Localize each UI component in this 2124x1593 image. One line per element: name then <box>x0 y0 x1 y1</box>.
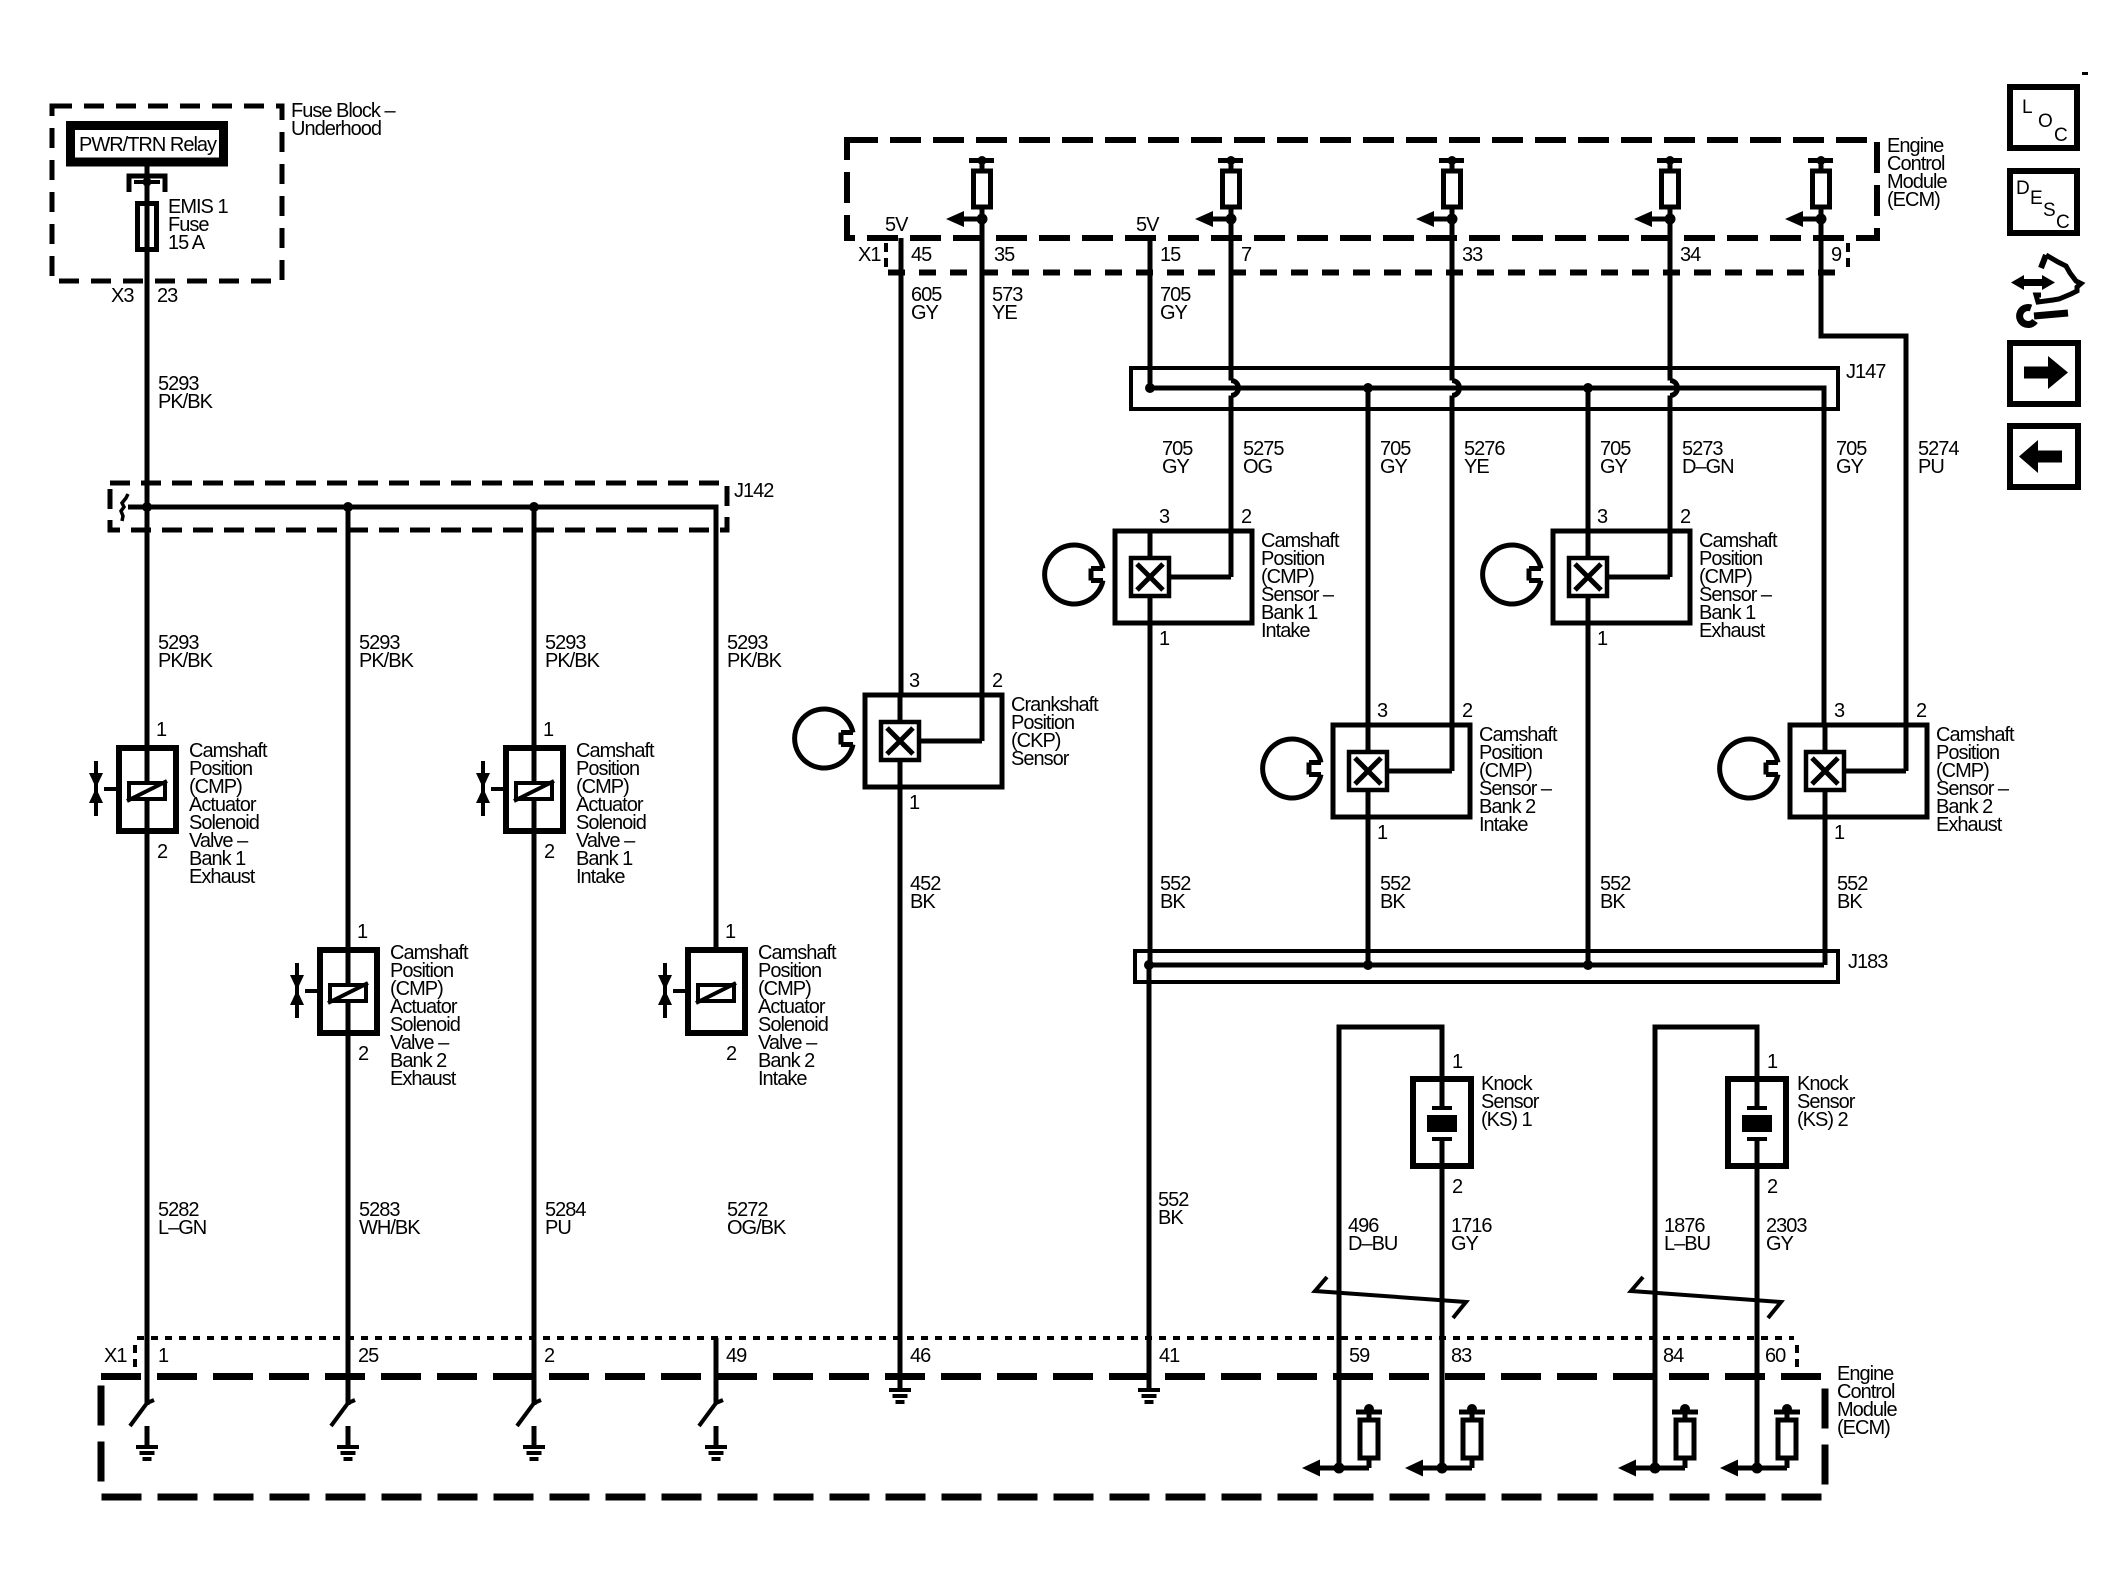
svg-text:YE: YE <box>992 302 1017 324</box>
svg-text:2: 2 <box>1452 1176 1463 1198</box>
svg-text:GY: GY <box>1766 1233 1794 1255</box>
junction on J183 bus B2 intake <box>1363 960 1373 970</box>
svg-text:Intake: Intake <box>1261 620 1310 642</box>
svg-text:PK/BK: PK/BK <box>158 650 214 672</box>
svg-text:3: 3 <box>1159 506 1170 528</box>
connector X3 pin 23 <box>111 285 178 307</box>
splice pack J147 box <box>1131 368 1838 409</box>
ECM knock input network pin 59 <box>1302 1338 1382 1477</box>
svg-text:OG: OG <box>1243 456 1273 478</box>
svg-text:Intake: Intake <box>576 866 625 888</box>
wire label 1876 L-BU <box>1664 1215 1710 1255</box>
wire label 705 GY (B2 exhaust) <box>1836 438 1867 478</box>
wire 5276 YE hop over J147 bus <box>1452 381 1460 396</box>
ECM internal resistor + signal arrow pin 9 <box>1785 156 1833 227</box>
ECM internal resistor + signal arrow pin 35 <box>946 156 994 227</box>
svg-text:84: 84 <box>1663 1345 1684 1367</box>
wire 5276 YE lower segment to CMP B2 intake pin 2 <box>1450 396 1455 726</box>
wire 5293 PK/BK to valve B1 exhaust <box>145 507 150 1405</box>
svg-text:1: 1 <box>1834 822 1845 844</box>
ground ECM pin 46 <box>889 1390 911 1402</box>
connector X1 top dotted line <box>888 270 1849 276</box>
knock sensor (KS) 1 label <box>1481 1073 1540 1131</box>
wire label 552 BK (B2 exhaust) <box>1837 873 1868 913</box>
valve B1 intake label <box>576 740 655 888</box>
wire label 5276 YE <box>1464 438 1505 478</box>
ECM switch to ground pin 1 <box>130 1338 158 1459</box>
crankshaft position (CKP) sensor label <box>1011 694 1099 770</box>
valve B2 intake label <box>758 942 837 1090</box>
ECM switch to ground pin 25 <box>331 1338 359 1459</box>
svg-text:2: 2 <box>544 1345 555 1367</box>
ECM bottom label <box>1837 1363 1897 1439</box>
svg-text:3: 3 <box>1834 700 1845 722</box>
engine control module (ECM) bottom dashed enclosure <box>101 1377 1825 1498</box>
svg-text:59: 59 <box>1349 1345 1370 1367</box>
knock sensor (KS) 2 <box>1728 1051 1786 1198</box>
svg-text:Intake: Intake <box>1479 814 1528 836</box>
wire label 5272 OG/BK <box>727 1199 787 1239</box>
svg-text:5V: 5V <box>885 214 909 236</box>
wire label 5282 L-GN <box>158 1199 206 1239</box>
svg-text:(ECM): (ECM) <box>1837 1417 1890 1439</box>
CMP actuator solenoid valve - Bank 1 Exhaust <box>89 719 176 863</box>
fuse block label <box>291 100 396 140</box>
svg-text:PU: PU <box>545 1217 571 1239</box>
svg-text:PK/BK: PK/BK <box>158 391 214 413</box>
wire label 5293 PK/BK (1) <box>158 632 214 672</box>
wire 1716 GY knock sensor (KS) 1 pin 2 to ECM <box>1440 1169 1445 1338</box>
svg-text:(ECM): (ECM) <box>1887 189 1940 211</box>
junction on J142 bus at wire 2 <box>343 502 353 512</box>
svg-text:3: 3 <box>1597 506 1608 528</box>
svg-text:(KS) 1: (KS) 1 <box>1481 1109 1533 1131</box>
svg-text:PU: PU <box>1918 456 1944 478</box>
camshaft position (CMP) sensor - Bank 1 Exhaust label <box>1699 530 1778 642</box>
CMP actuator solenoid valve - Bank 1 Intake <box>476 719 563 863</box>
wire 552 BK J183 to ECM pin 41 <box>1147 965 1152 1388</box>
svg-text:YE: YE <box>1464 456 1489 478</box>
page mark <box>2082 72 2088 75</box>
svg-text:46: 46 <box>910 1345 931 1367</box>
wire 552 BK CMP B2 exhaust pin 1 to J183 <box>1823 817 1828 965</box>
ECM knock input network pin 83 <box>1405 1338 1485 1477</box>
svg-text:60: 60 <box>1765 1345 1786 1367</box>
wire label 1716 GY <box>1451 1215 1492 1255</box>
camshaft position (CMP) sensor - Bank 2 Exhaust <box>1720 700 1927 844</box>
svg-text:GY: GY <box>1162 456 1190 478</box>
icon next arrow button <box>2010 343 2078 404</box>
wire 5293 PK/BK to valve B2 exhaust <box>346 507 351 1405</box>
fuse block - underhood dashed enclosure <box>52 106 282 281</box>
svg-text:34: 34 <box>1680 244 1701 266</box>
svg-text:L–BU: L–BU <box>1664 1233 1710 1255</box>
wire 5273 D-GN hop over J147 bus <box>1670 381 1678 396</box>
svg-text:BK: BK <box>1600 891 1626 913</box>
svg-text:2: 2 <box>1767 1176 1778 1198</box>
junction on J147 bus pin15 wire <box>1145 383 1155 393</box>
wire label 5275 OG <box>1243 438 1284 478</box>
wire label 552 BK (to pin 41) <box>1158 1189 1189 1229</box>
wire 552 BK CMP B1 exhaust pin 1 to J183 <box>1586 623 1591 965</box>
wire 1876 L-BU ECM to knock sensor (KS) 2 pin 1 <box>1655 1027 1757 1338</box>
wire 705 GY J147 to CMP B1 exhaust pin 3 <box>1586 388 1591 531</box>
wire label 452 BK <box>910 873 941 913</box>
icon LOC button <box>2010 87 2077 148</box>
wire 5276 YE pin 33 upper segment <box>1450 219 1455 381</box>
ECM internal resistor + signal arrow pin 7 <box>1195 156 1243 227</box>
svg-text:15: 15 <box>1160 244 1181 266</box>
svg-text:J147: J147 <box>1846 361 1886 383</box>
svg-text:3: 3 <box>1377 700 1388 722</box>
engine control module (ECM) top dashed enclosure <box>847 140 1877 238</box>
wire 452 BK CKP pin 1 to ECM pin 46 <box>898 787 903 1388</box>
svg-text:7: 7 <box>1241 244 1252 266</box>
wire 2303 GY knock sensor (KS) 2 pin 2 to ECM <box>1755 1169 1760 1338</box>
fuse EMIS 1 15 A <box>138 196 229 254</box>
twisted pair marker knock sensor (KS) 2 <box>1631 1277 1781 1318</box>
svg-text:BK: BK <box>910 891 936 913</box>
wire 5274 PU pin 9 with jog to CMP B2 exhaust pin 2 <box>1821 219 1906 725</box>
svg-text:GY: GY <box>1451 1233 1479 1255</box>
wire label 705 GY (B1 exhaust) <box>1600 438 1631 478</box>
svg-text:X1: X1 <box>858 244 881 266</box>
svg-text:1: 1 <box>1452 1051 1463 1073</box>
wire 5275 OG pin 7 upper segment <box>1229 219 1234 381</box>
svg-text:Intake: Intake <box>758 1068 807 1090</box>
ECM switch to ground pin 49 <box>699 1338 727 1459</box>
wire 573 YE pin 35 to CKP pin 2 <box>980 219 985 695</box>
junction on J183 bus to ECM pin 41 <box>1144 960 1154 970</box>
connector X1 bottom row <box>104 1345 1797 1368</box>
svg-text:1: 1 <box>1159 628 1170 650</box>
ECM knock input network pin 60 <box>1720 1338 1800 1477</box>
svg-text:2: 2 <box>1680 506 1691 528</box>
svg-text:BK: BK <box>1158 1207 1184 1229</box>
svg-text:X3: X3 <box>111 285 134 307</box>
svg-text:1: 1 <box>1767 1051 1778 1073</box>
wire label 5293 PK/BK (2) <box>359 632 415 672</box>
svg-text:PK/BK: PK/BK <box>727 650 783 672</box>
icon vehicle locator with arrow and wrench <box>2011 255 2081 324</box>
valve B1 exhaust label <box>189 740 268 888</box>
svg-text:BK: BK <box>1160 891 1186 913</box>
svg-text:BK: BK <box>1837 891 1863 913</box>
wire label 705 GY (B2 intake) <box>1380 438 1411 478</box>
splice pack J142 dashed box <box>110 483 727 530</box>
svg-text:D: D <box>2016 178 2029 199</box>
svg-text:2: 2 <box>1462 700 1473 722</box>
fuse holder clip <box>129 176 165 192</box>
wire label 705 GY (pin 15) <box>1160 284 1191 324</box>
wire label 5293 PK/BK (4) <box>727 632 783 672</box>
camshaft position (CMP) sensor - Bank 1 Intake label <box>1261 530 1340 642</box>
wire label 5283 WH/BK <box>359 1199 421 1239</box>
svg-text:GY: GY <box>1600 456 1628 478</box>
svg-text:BK: BK <box>1380 891 1406 913</box>
svg-text:D–GN: D–GN <box>1682 456 1734 478</box>
svg-text:83: 83 <box>1451 1345 1472 1367</box>
wire 705 GY J147 to CMP B2 intake pin 3 <box>1366 388 1371 725</box>
camshaft position (CMP) sensor - Bank 2 Intake <box>1263 700 1473 844</box>
wire 705 GY pin 15 to J147 <box>1148 238 1153 388</box>
J147 bus wire 705 GY <box>1150 388 1824 725</box>
svg-text:9: 9 <box>1831 244 1842 266</box>
svg-text:2: 2 <box>1241 506 1252 528</box>
wire label 5293 PK/BK <box>158 373 214 413</box>
svg-text:C: C <box>2056 212 2069 233</box>
wire label 552 BK (B1 intake) <box>1160 873 1191 913</box>
svg-text:GY: GY <box>1380 456 1408 478</box>
svg-text:15 A: 15 A <box>168 232 206 254</box>
svg-text:45: 45 <box>911 244 932 266</box>
svg-text:(KS) 2: (KS) 2 <box>1797 1109 1849 1131</box>
svg-text:2: 2 <box>1916 700 1927 722</box>
CMP actuator solenoid valve - Bank 2 Exhaust <box>290 921 377 1065</box>
svg-text:C: C <box>2054 125 2067 146</box>
wire 552 BK CMP B1 intake pin 1 to J183 <box>1148 623 1153 965</box>
relay PWR/TRN Relay <box>71 126 224 163</box>
wire label 5274 PU <box>1918 438 1959 478</box>
svg-text:Underhood: Underhood <box>291 118 381 140</box>
wire 5275 OG lower segment to CMP B1 intake pin 2 <box>1229 396 1234 532</box>
svg-text:1: 1 <box>1597 628 1608 650</box>
svg-text:D–BU: D–BU <box>1348 1233 1397 1255</box>
knock sensor (KS) 2 label <box>1797 1073 1856 1131</box>
wire label 5273 D-GN <box>1682 438 1734 478</box>
svg-text:OG/BK: OG/BK <box>727 1217 787 1239</box>
svg-text:Exhaust: Exhaust <box>1936 814 2003 836</box>
connector X1 top row <box>858 243 1848 268</box>
svg-text:41: 41 <box>1159 1345 1180 1367</box>
svg-text:5V: 5V <box>1136 214 1160 236</box>
svg-text:PWR/TRN Relay: PWR/TRN Relay <box>79 134 217 156</box>
junction on J142 bus at wire 3 <box>529 502 539 512</box>
svg-text:L–GN: L–GN <box>158 1217 206 1239</box>
camshaft position (CMP) sensor - Bank 2 Exhaust label <box>1936 724 2015 836</box>
svg-text:Exhaust: Exhaust <box>189 866 256 888</box>
valve B2 exhaust label <box>390 942 469 1090</box>
junction on J147 bus branch B1 exhaust <box>1583 383 1593 393</box>
wire label 573 YE <box>992 284 1023 324</box>
wire 5293 PK/BK to valve B1 intake <box>532 507 537 1405</box>
svg-text:GY: GY <box>1160 302 1188 324</box>
svg-text:23: 23 <box>157 285 178 307</box>
ECM internal resistor + signal arrow pin 33 <box>1416 156 1464 227</box>
crankshaft position (CKP) sensor <box>795 670 1003 814</box>
twisted pair marker knock sensor (KS) 1 <box>1315 1277 1466 1318</box>
wire label 5284 PU <box>545 1199 586 1239</box>
ECM knock input network pin 84 <box>1618 1338 1698 1477</box>
wire 552 BK CMP B2 intake pin 1 to J183 <box>1366 817 1371 965</box>
svg-text:1: 1 <box>158 1345 169 1367</box>
wire 5273 D-GN pin 34 upper segment <box>1668 219 1673 381</box>
wire 605 GY pin 45 to CKP pin 3 <box>899 238 904 695</box>
wire label 605 GY <box>911 284 942 324</box>
svg-text:Sensor: Sensor <box>1011 748 1070 770</box>
svg-text:1: 1 <box>909 792 920 814</box>
camshaft position (CMP) sensor - Bank 1 Exhaust <box>1483 506 1691 650</box>
ECM top label <box>1887 135 1947 211</box>
svg-text:3: 3 <box>909 670 920 692</box>
J183 bus wire 552 BK <box>1149 963 1824 968</box>
icon previous arrow button <box>2010 426 2078 487</box>
svg-text:J183: J183 <box>1848 951 1888 973</box>
svg-text:GY: GY <box>1836 456 1864 478</box>
wire label 552 BK (B1 exhaust) <box>1600 873 1631 913</box>
svg-text:L: L <box>2022 97 2032 118</box>
junction on J142 bus at wire 1 <box>142 502 152 512</box>
J142 terminal hook <box>121 494 128 521</box>
svg-text:O: O <box>2038 111 2052 132</box>
svg-text:Exhaust: Exhaust <box>1699 620 1766 642</box>
svg-text:2: 2 <box>992 670 1003 692</box>
J142 bus wire <box>128 507 716 947</box>
CMP actuator solenoid valve - Bank 2 Intake <box>658 921 745 1065</box>
connector X1 bottom dotted line <box>137 1336 1794 1340</box>
wire label 496 D-BU <box>1348 1215 1397 1255</box>
svg-text:PK/BK: PK/BK <box>545 650 601 672</box>
icon DESC button <box>2010 171 2077 233</box>
wire 5275 OG hop over J147 bus <box>1231 381 1239 396</box>
svg-text:X1: X1 <box>104 1345 127 1367</box>
camshaft position (CMP) sensor - Bank 1 Intake <box>1045 506 1252 650</box>
svg-text:J142: J142 <box>734 480 774 502</box>
svg-text:25: 25 <box>358 1345 379 1367</box>
svg-text:WH/BK: WH/BK <box>359 1217 421 1239</box>
wire label 2303 GY <box>1766 1215 1807 1255</box>
svg-text:35: 35 <box>994 244 1015 266</box>
wire label 5293 PK/BK (3) <box>545 632 601 672</box>
wire label 705 GY (B1 intake) <box>1162 438 1193 478</box>
junction on J147 bus branch B2 intake <box>1363 383 1373 393</box>
ground ECM pin 41 <box>1138 1390 1160 1402</box>
svg-text:1: 1 <box>1377 822 1388 844</box>
wire label 552 BK (B2 intake) <box>1380 873 1411 913</box>
camshaft position (CMP) sensor - Bank 2 Intake label <box>1479 724 1558 836</box>
svg-text:Exhaust: Exhaust <box>390 1068 457 1090</box>
wire 496 D-BU ECM to knock sensor (KS) 1 pin 1 <box>1339 1027 1442 1338</box>
wire 5293 PK/BK from fuse to J142 <box>145 182 150 507</box>
splice pack J183 box <box>1135 951 1838 982</box>
svg-text:GY: GY <box>911 302 939 324</box>
svg-text:E: E <box>2030 188 2042 209</box>
svg-text:49: 49 <box>726 1345 747 1367</box>
wire relay to fuse holder <box>145 166 150 178</box>
svg-text:S: S <box>2043 200 2055 221</box>
junction on J183 bus B1 exhaust <box>1583 960 1593 970</box>
ECM internal resistor + signal arrow pin 34 <box>1634 156 1682 227</box>
svg-text:PK/BK: PK/BK <box>359 650 415 672</box>
svg-text:33: 33 <box>1462 244 1483 266</box>
knock sensor (KS) 1 <box>1413 1051 1471 1198</box>
ECM switch to ground pin 2 <box>517 1338 545 1459</box>
wire 5273 D-GN lower segment to CMP B1 exhaust pin 2 <box>1668 396 1673 532</box>
